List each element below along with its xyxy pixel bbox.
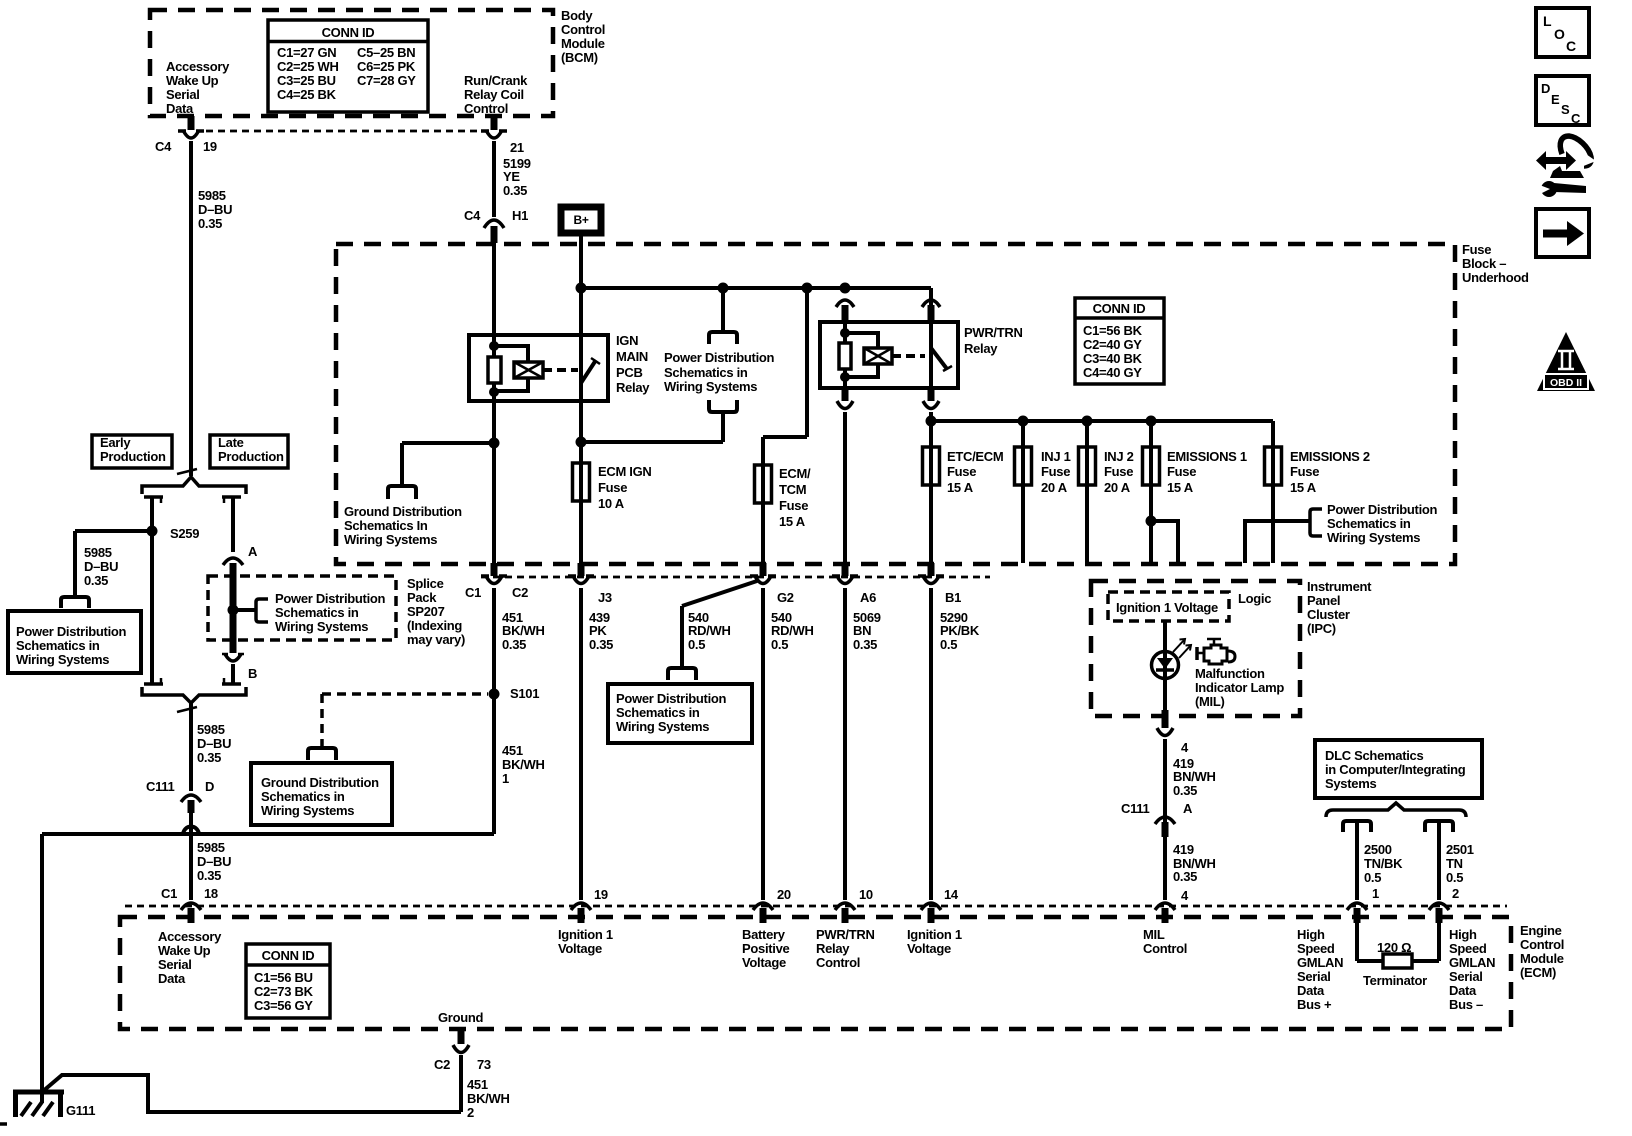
svg-text:EMISSIONS 1: EMISSIONS 1 [1167,449,1247,464]
svg-text:0.5: 0.5 [771,637,788,652]
svg-text:C4: C4 [464,208,481,223]
svg-text:0.5: 0.5 [1364,870,1381,885]
svg-text:Power Distribution: Power Distribution [275,591,386,606]
svg-text:Block –: Block – [1462,256,1506,271]
svg-text:19: 19 [594,887,608,902]
svg-text:(MIL): (MIL) [1195,694,1225,709]
svg-text:Wiring Systems: Wiring Systems [275,619,368,634]
svg-text:Fuse: Fuse [1041,464,1070,479]
svg-text:Data: Data [1449,983,1477,998]
svg-text:Schematics in: Schematics in [664,365,748,380]
svg-text:C111: C111 [146,779,175,794]
svg-text:BK/WH: BK/WH [502,623,545,638]
svg-text:(ECM): (ECM) [1520,965,1556,980]
svg-text:Indicator Lamp: Indicator Lamp [1195,680,1284,695]
svg-text:Control: Control [1520,937,1564,952]
svg-text:C4: C4 [155,139,172,154]
svg-text:0.5: 0.5 [940,637,957,652]
svg-text:Power Distribution: Power Distribution [616,691,727,706]
svg-text:Positive: Positive [742,941,790,956]
svg-text:Fuse: Fuse [1104,464,1133,479]
svg-text:Data: Data [158,971,186,986]
svg-text:Power Distribution: Power Distribution [664,350,775,365]
svg-text:Fuse: Fuse [598,480,627,495]
svg-text:MIL: MIL [1143,927,1165,942]
svg-text:Engine: Engine [1520,923,1562,938]
svg-text:Fuse: Fuse [779,498,808,513]
svg-text:0.35: 0.35 [198,216,222,231]
svg-text:Relay: Relay [964,341,998,356]
svg-text:CONN ID: CONN ID [1093,301,1146,316]
svg-text:451: 451 [502,743,523,758]
svg-text:D: D [205,779,214,794]
svg-text:2500: 2500 [1364,842,1392,857]
svg-text:Body: Body [561,8,593,23]
svg-text:Module: Module [561,36,605,51]
svg-text:0.35: 0.35 [84,573,108,588]
svg-text:D–BU: D–BU [198,202,232,217]
svg-text:C111: C111 [1121,801,1150,816]
svg-text:Schematics In: Schematics In [344,518,428,533]
svg-text:Terminator: Terminator [1363,973,1427,988]
svg-text:19: 19 [203,139,217,154]
svg-text:TN: TN [1446,856,1463,871]
svg-text:ECM/: ECM/ [779,466,811,481]
svg-text:A6: A6 [860,590,876,605]
svg-text:Relay: Relay [816,941,850,956]
svg-text:4: 4 [1181,888,1189,903]
svg-text:2501: 2501 [1446,842,1474,857]
svg-text:B+: B+ [573,213,588,227]
svg-text:Bus +: Bus + [1297,997,1332,1012]
svg-text:0.5: 0.5 [688,637,705,652]
svg-text:(Indexing: (Indexing [407,618,462,633]
svg-text:5985: 5985 [197,840,225,855]
svg-text:Wiring Systems: Wiring Systems [616,719,709,734]
svg-text:73: 73 [477,1057,491,1072]
svg-text:D–BU: D–BU [197,736,231,751]
svg-text:D: D [1541,81,1550,96]
svg-text:C4=25 BK: C4=25 BK [277,87,337,102]
svg-text:C2=40 GY: C2=40 GY [1083,337,1142,352]
svg-text:1: 1 [502,771,509,786]
svg-text:High: High [1449,927,1477,942]
svg-text:2: 2 [1452,886,1459,901]
svg-text:0.35: 0.35 [1173,783,1197,798]
svg-text:Bus –: Bus – [1449,997,1483,1012]
svg-text:Wiring Systems: Wiring Systems [664,379,757,394]
svg-text:ETC/ECM: ETC/ECM [947,449,1003,464]
svg-text:2: 2 [467,1105,474,1120]
svg-text:C3=56 GY: C3=56 GY [254,998,313,1013]
svg-text:B1: B1 [945,590,961,605]
svg-text:E: E [1551,92,1560,107]
svg-text:RD/WH: RD/WH [688,623,731,638]
svg-text:Cluster: Cluster [1307,607,1350,622]
svg-text:5985: 5985 [198,188,226,203]
svg-text:INJ 1: INJ 1 [1041,449,1071,464]
svg-text:Serial: Serial [1297,969,1331,984]
svg-text:Control: Control [464,101,508,116]
svg-text:20 A: 20 A [1041,480,1068,495]
svg-text:Serial: Serial [166,87,200,102]
svg-text:Data: Data [1297,983,1325,998]
svg-text:C1=27 GN: C1=27 GN [277,45,336,60]
svg-text:S259: S259 [170,526,199,541]
svg-text:Schematics in: Schematics in [261,789,345,804]
svg-text:G111: G111 [66,1103,95,1118]
svg-text:IGN: IGN [616,333,638,348]
svg-text:Production: Production [218,449,284,464]
svg-text:C1=56 BU: C1=56 BU [254,970,313,985]
svg-text:Control: Control [1143,941,1187,956]
svg-text:Schematics in: Schematics in [16,638,100,653]
svg-text:C5–25 BN: C5–25 BN [357,45,415,60]
svg-text:Pack: Pack [407,590,437,605]
svg-text:H1: H1 [512,208,528,223]
svg-text:0.35: 0.35 [502,637,526,652]
svg-text:YE: YE [503,169,520,184]
svg-text:J3: J3 [598,590,612,605]
svg-text:Serial: Serial [1449,969,1483,984]
svg-text:Relay: Relay [616,380,650,395]
svg-text:BN: BN [853,623,871,638]
svg-text:Accessory: Accessory [158,929,222,944]
svg-text:C: C [1566,38,1576,54]
svg-text:Control: Control [561,22,605,37]
svg-text:G2: G2 [777,590,794,605]
svg-text:C2: C2 [434,1057,450,1072]
svg-text:C6=25 PK: C6=25 PK [357,59,416,74]
svg-text:Run/Crank: Run/Crank [464,73,528,88]
svg-text:Voltage: Voltage [907,941,951,956]
svg-text:C2=73 BK: C2=73 BK [254,984,314,999]
svg-text:RD/WH: RD/WH [771,623,814,638]
svg-text:Voltage: Voltage [742,955,786,970]
svg-text:Underhood: Underhood [1462,270,1529,285]
svg-text:1: 1 [1372,886,1379,901]
svg-text:C7=28 GY: C7=28 GY [357,73,416,88]
svg-text:S: S [1561,102,1570,117]
svg-text:Module: Module [1520,951,1564,966]
svg-text:GMLAN: GMLAN [1449,955,1495,970]
svg-text:TN/BK: TN/BK [1364,856,1403,871]
svg-text:Malfunction: Malfunction [1195,666,1265,681]
svg-text:0.35: 0.35 [589,637,613,652]
svg-text:Relay Coil: Relay Coil [464,87,524,102]
svg-text:C: C [1571,111,1581,126]
svg-text:SP207: SP207 [407,604,445,619]
svg-text:A: A [248,544,258,559]
svg-text:S101: S101 [510,686,539,701]
svg-text:18: 18 [204,886,218,901]
svg-text:20: 20 [777,887,791,902]
svg-text:15 A: 15 A [1290,480,1317,495]
svg-text:21: 21 [510,140,524,155]
svg-text:15 A: 15 A [1167,480,1194,495]
svg-text:A: A [1183,801,1193,816]
svg-text:Ground Distribution: Ground Distribution [261,775,379,790]
svg-text:D–BU: D–BU [197,854,231,869]
svg-text:TCM: TCM [779,482,806,497]
svg-text:Speed: Speed [1449,941,1487,956]
svg-text:0.35: 0.35 [197,750,221,765]
svg-text:C1=56 BK: C1=56 BK [1083,323,1143,338]
svg-text:PK/BK: PK/BK [940,623,980,638]
svg-text:Fuse: Fuse [1462,242,1491,257]
svg-text:C3=40 BK: C3=40 BK [1083,351,1143,366]
svg-text:Ground Distribution: Ground Distribution [344,504,462,519]
svg-text:Ground: Ground [438,1010,483,1025]
svg-text:O: O [1554,26,1565,42]
svg-text:Fuse: Fuse [1290,464,1319,479]
svg-text:(IPC): (IPC) [1307,621,1336,636]
svg-text:C2=25 WH: C2=25 WH [277,59,339,74]
svg-text:Wake Up: Wake Up [158,943,211,958]
svg-text:PK: PK [589,623,607,638]
svg-text:10: 10 [859,887,873,902]
svg-text:C4=40 GY: C4=40 GY [1083,365,1142,380]
svg-text:Splice: Splice [407,576,444,591]
svg-text:DLC Schematics: DLC Schematics [1325,748,1423,763]
svg-text:Systems: Systems [1325,776,1376,791]
svg-text:Ignition 1: Ignition 1 [558,927,613,942]
svg-text:(BCM): (BCM) [561,50,598,65]
svg-text:419: 419 [1173,842,1194,857]
svg-text:Schematics in: Schematics in [1327,516,1411,531]
svg-text:Voltage: Voltage [558,941,602,956]
svg-text:120 Ω: 120 Ω [1377,940,1411,955]
svg-text:Schematics in: Schematics in [616,705,700,720]
svg-text:Production: Production [100,449,166,464]
svg-text:CONN ID: CONN ID [262,948,315,963]
svg-text:INJ 2: INJ 2 [1104,449,1134,464]
svg-text:BK/WH: BK/WH [467,1091,510,1106]
svg-text:15 A: 15 A [947,480,974,495]
svg-text:14: 14 [944,887,959,902]
svg-text:C2: C2 [512,585,528,600]
svg-text:BN/WH: BN/WH [1173,769,1216,784]
svg-text:15 A: 15 A [779,514,806,529]
svg-text:Late: Late [218,435,244,450]
svg-text:PCB: PCB [616,365,643,380]
svg-text:PWR/TRN: PWR/TRN [964,325,1023,340]
svg-text:Schematics in: Schematics in [275,605,359,620]
svg-text:may vary): may vary) [407,632,465,647]
svg-text:ECM IGN: ECM IGN [598,464,652,479]
svg-text:10 A: 10 A [598,496,625,511]
svg-text:0.35: 0.35 [853,637,877,652]
svg-text:High: High [1297,927,1325,942]
svg-text:5985: 5985 [84,545,112,560]
svg-text:20 A: 20 A [1104,480,1131,495]
svg-text:Ignition 1: Ignition 1 [907,927,962,942]
svg-text:0.35: 0.35 [1173,869,1197,884]
svg-text:Fuse: Fuse [1167,464,1196,479]
svg-text:Instrument: Instrument [1307,579,1372,594]
svg-text:Wiring Systems: Wiring Systems [261,803,354,818]
svg-text:D–BU: D–BU [84,559,118,574]
svg-text:PWR/TRN: PWR/TRN [816,927,875,942]
svg-text:B: B [248,666,257,681]
svg-text:Accessory: Accessory [166,59,230,74]
svg-text:C3=25 BU: C3=25 BU [277,73,336,88]
svg-text:C1: C1 [161,886,177,901]
svg-text:4: 4 [1181,740,1189,755]
svg-text:L: L [1543,13,1552,29]
svg-text:451: 451 [467,1077,488,1092]
svg-text:Fuse: Fuse [947,464,976,479]
svg-text:Logic: Logic [1238,591,1271,606]
svg-text:Panel: Panel [1307,593,1340,608]
svg-text:Power Distribution: Power Distribution [16,624,127,639]
svg-text:Serial: Serial [158,957,192,972]
svg-text:BK/WH: BK/WH [502,757,545,772]
svg-text:OBD II: OBD II [1550,377,1582,389]
svg-text:Control: Control [816,955,860,970]
svg-text:CONN ID: CONN ID [322,25,375,40]
svg-text:Wake Up: Wake Up [166,73,219,88]
svg-text:Battery: Battery [742,927,786,942]
svg-text:0.35: 0.35 [503,183,527,198]
svg-text:Wiring Systems: Wiring Systems [1327,530,1420,545]
svg-text:EMISSIONS 2: EMISSIONS 2 [1290,449,1370,464]
svg-text:Speed: Speed [1297,941,1335,956]
svg-text:0.35: 0.35 [197,868,221,883]
svg-text:GMLAN: GMLAN [1297,955,1343,970]
svg-text:C1: C1 [465,585,481,600]
svg-text:Wiring Systems: Wiring Systems [344,532,437,547]
svg-text:5985: 5985 [197,722,225,737]
svg-text:Data: Data [166,101,194,116]
svg-text:Power Distribution: Power Distribution [1327,502,1438,517]
svg-text:Ignition 1 Voltage: Ignition 1 Voltage [1116,600,1218,615]
svg-text:in Computer/Integrating: in Computer/Integrating [1325,762,1466,777]
svg-text:Wiring Systems: Wiring Systems [16,652,109,667]
svg-text:Early: Early [100,435,131,450]
svg-text:0.5: 0.5 [1446,870,1463,885]
svg-text:MAIN: MAIN [616,349,648,364]
